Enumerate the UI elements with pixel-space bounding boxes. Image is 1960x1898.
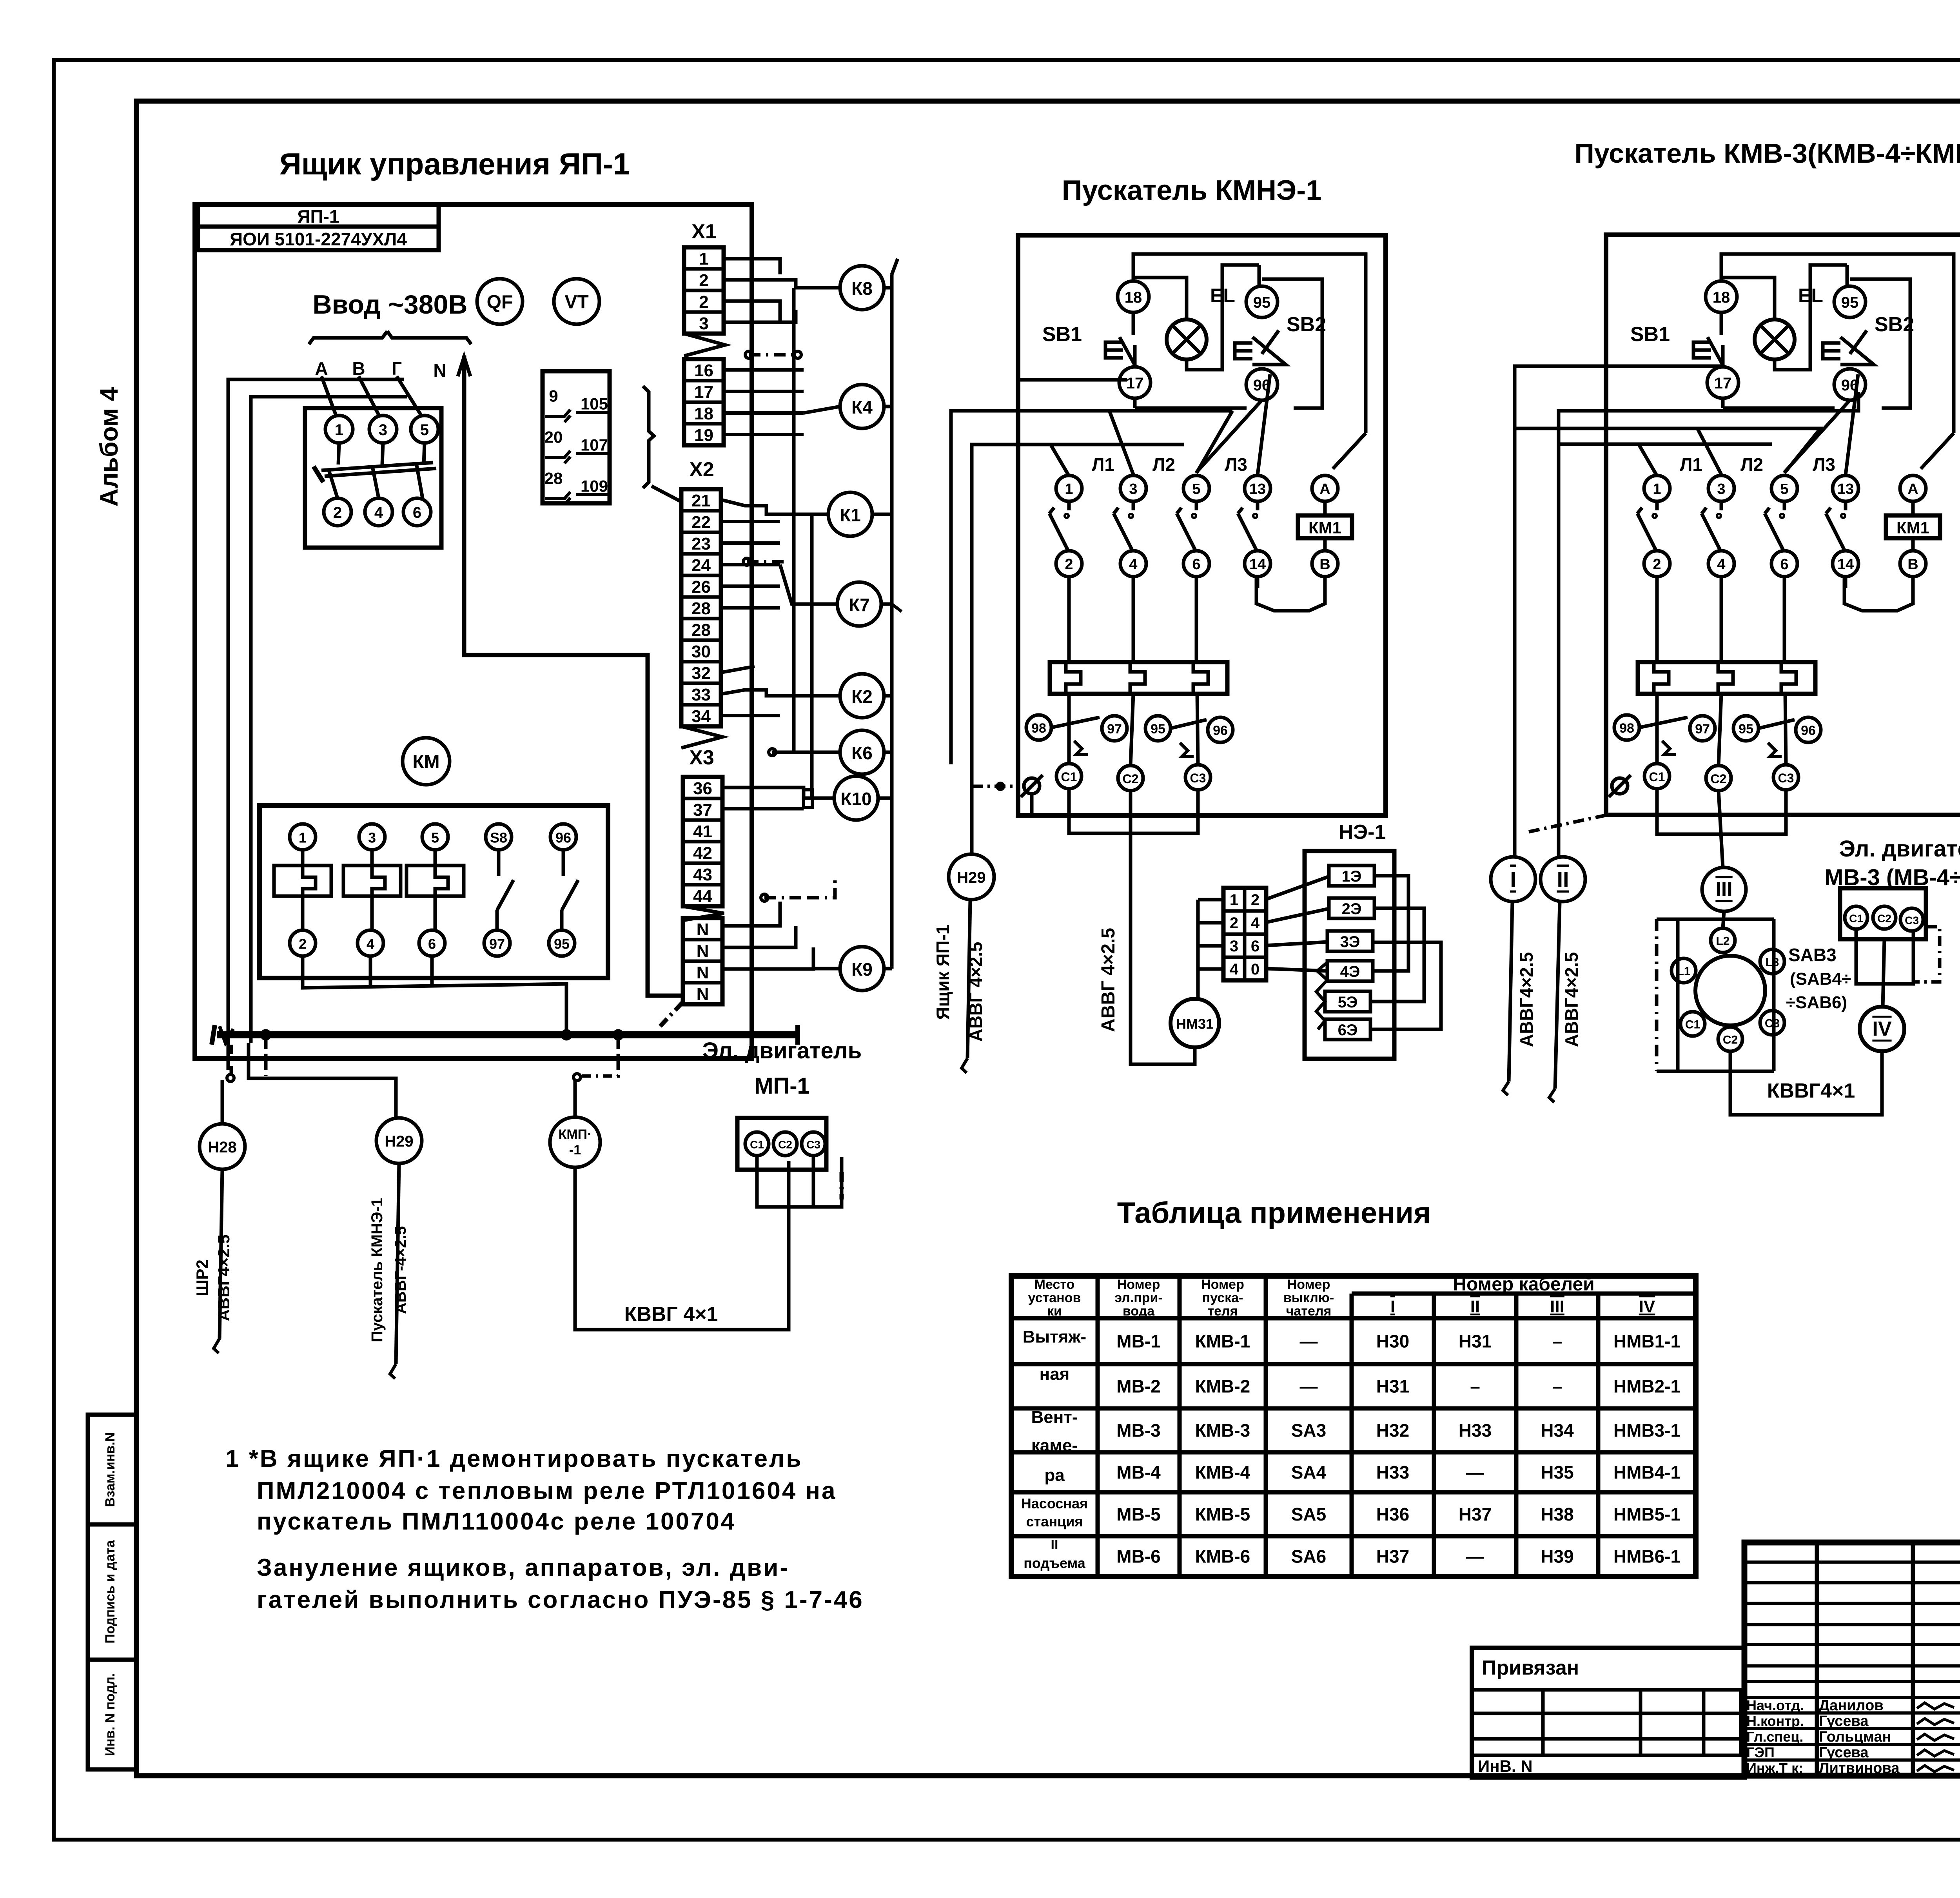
svg-text:II: II xyxy=(1051,1537,1058,1552)
svg-text:К2: К2 xyxy=(851,686,873,707)
svg-text:28: 28 xyxy=(691,621,711,640)
svg-text:44: 44 xyxy=(693,887,712,906)
KVVG 4x1 wire (section 3) xyxy=(1730,1051,1882,1115)
X1 rows 1-3 wires to loop xyxy=(724,259,780,274)
svg-text:-1: -1 xyxy=(569,1143,581,1158)
terminal 18 (КМВ-3) xyxy=(1706,281,1737,312)
svg-text:4: 4 xyxy=(374,504,383,521)
svg-text:–: – xyxy=(1470,1376,1480,1397)
svg-text:МП-1: МП-1 xyxy=(754,1073,810,1099)
svg-text:Н31: Н31 xyxy=(1459,1331,1492,1352)
svg-text:Н35: Н35 xyxy=(1541,1462,1573,1482)
svg-text:Гусева: Гусева xyxy=(1819,1713,1869,1729)
svg-text:3: 3 xyxy=(368,830,376,846)
svg-text:Инж.Т к:: Инж.Т к: xyxy=(1746,1760,1803,1776)
svg-text:–: – xyxy=(1552,1376,1563,1397)
svg-text:13: 13 xyxy=(1249,481,1266,497)
terminal box MV-3 xyxy=(1840,888,1926,939)
motor terminal C3 xyxy=(1760,1011,1784,1035)
svg-text:С3: С3 xyxy=(1765,1017,1780,1030)
svg-text:КМВ-5: КМВ-5 xyxy=(1195,1504,1250,1524)
feeder wire y1048 riser xyxy=(951,411,1181,764)
MV-3 box loop below xyxy=(1856,929,1913,984)
svg-text:4: 4 xyxy=(1717,556,1725,573)
cable circle III xyxy=(1702,867,1746,911)
svg-text:Л1: Л1 xyxy=(1092,454,1114,475)
svg-text:Зануление ящиков, аппаратов, э: Зануление ящиков, аппаратов, эл. дви- xyxy=(257,1554,789,1581)
svg-text:Н32: Н32 xyxy=(1376,1420,1409,1441)
cable circle H29 (section 2) xyxy=(949,854,994,900)
svg-text:Н28: Н28 xyxy=(208,1139,236,1156)
svg-text:С3: С3 xyxy=(1905,915,1919,927)
svg-text:2: 2 xyxy=(1230,915,1238,932)
svg-text:Н33: Н33 xyxy=(1376,1462,1409,1482)
svg-text:4: 4 xyxy=(1251,915,1260,932)
svg-text:2: 2 xyxy=(299,936,307,952)
svg-text:VT: VT xyxy=(564,292,588,313)
H29 cable tail xyxy=(396,1163,399,1364)
svg-text:КВВГ4×1: КВВГ4×1 xyxy=(1767,1080,1855,1102)
breaker terminal 5 xyxy=(411,416,438,443)
svg-text:Альбом 4: Альбом 4 xyxy=(95,387,123,506)
cable circle H29 xyxy=(376,1118,422,1163)
svg-text:14: 14 xyxy=(1249,556,1266,573)
thermal relay block (КМВ-3) xyxy=(1638,662,1815,694)
svg-text:КМВ-3: КМВ-3 xyxy=(1195,1420,1250,1441)
H28 cable tail xyxy=(220,1169,222,1339)
svg-text:АВВГ4×2.5: АВВГ4×2.5 xyxy=(1561,952,1582,1047)
svg-text:ИнВ. N: ИнВ. N xyxy=(1478,1757,1533,1775)
svg-text:22: 22 xyxy=(691,513,711,532)
svg-text:17: 17 xyxy=(1126,375,1144,392)
thermal contact 96 (КМВ-3) xyxy=(1796,717,1821,742)
svg-text:Пускатель КМНЭ-1: Пускатель КМНЭ-1 xyxy=(368,1198,386,1342)
svg-text:АВВГ-4×2.5: АВВГ-4×2.5 xyxy=(392,1226,409,1314)
svg-text:96: 96 xyxy=(1213,723,1228,738)
svg-text:6: 6 xyxy=(1192,556,1200,573)
svg-text:С1: С1 xyxy=(1649,770,1665,784)
diagonal 96 to contact 5 (КМНЭ-1) xyxy=(1196,400,1262,472)
KM aux contacts xyxy=(497,850,501,876)
svg-text:N: N xyxy=(697,985,709,1004)
svg-text:—: — xyxy=(1300,1376,1318,1397)
wire to H29 xyxy=(249,1043,396,1118)
SB1 blade (КМВ-3) xyxy=(1708,337,1724,367)
svg-text:чателя: чателя xyxy=(1286,1304,1332,1319)
svg-text:N: N xyxy=(433,360,446,381)
svg-text:÷SАВ6): ÷SАВ6) xyxy=(1786,993,1847,1012)
pole terminal 13 (КМНЭ-1) xyxy=(1245,475,1270,501)
NE-1 loop wires right xyxy=(1373,876,1408,971)
pole terminal 6 (КМНЭ-1) xyxy=(1183,551,1209,577)
svg-text:АВВГ4×2.5: АВВГ4×2.5 xyxy=(214,1234,233,1321)
svg-text:Н36: Н36 xyxy=(1376,1504,1409,1524)
svg-text:МВ-5: МВ-5 xyxy=(1116,1504,1160,1524)
svg-text:6: 6 xyxy=(1251,938,1259,955)
NE-1 block box xyxy=(1305,851,1394,1059)
svg-text:III: III xyxy=(1715,878,1732,901)
MP-1 terminals C1 C2 C3 xyxy=(745,1132,769,1156)
svg-text:34: 34 xyxy=(691,707,711,726)
thermal contact 96 (КМНЭ-1) xyxy=(1208,717,1233,742)
H29-2 cable tail xyxy=(967,900,970,1058)
cable circle H28 xyxy=(200,1124,245,1169)
svg-text:К4: К4 xyxy=(851,397,873,417)
svg-text:2: 2 xyxy=(1653,556,1661,573)
title block frame xyxy=(1744,1542,1960,1776)
terminal 95 top (КМВ-3) xyxy=(1834,286,1866,318)
svg-text:эл.при-: эл.при- xyxy=(1114,1290,1163,1305)
thermal contact 98 (КМВ-3) xyxy=(1614,715,1639,740)
svg-text:–: – xyxy=(1552,1331,1563,1352)
KM bottom link wire xyxy=(303,956,566,1035)
link 14 to B (КМНЭ-1) xyxy=(1256,577,1325,611)
K9 stub xyxy=(884,967,892,971)
svg-text:3: 3 xyxy=(1230,938,1238,955)
MV-3 dash stub right xyxy=(1915,927,1940,982)
svg-text:1: 1 xyxy=(299,830,307,846)
SB1 blade (КМНЭ-1) xyxy=(1120,337,1136,367)
svg-text:43: 43 xyxy=(693,865,712,884)
KM terminal S8 top xyxy=(486,824,512,850)
svg-text:QF: QF xyxy=(487,292,513,313)
terminal 96 (КМНЭ-1) xyxy=(1246,369,1278,400)
svg-text:3: 3 xyxy=(1717,481,1725,497)
pole terminal 5 (КМНЭ-1) xyxy=(1183,475,1209,501)
svg-text:Номер: Номер xyxy=(1201,1277,1244,1292)
KM contact block xyxy=(260,806,608,978)
KM main contacts xyxy=(274,866,331,896)
svg-text:—: — xyxy=(1466,1546,1484,1567)
thermal contact 98 (КМНЭ-1) xyxy=(1026,715,1051,740)
svg-text:SВ1: SВ1 xyxy=(1630,323,1670,346)
svg-text:17: 17 xyxy=(1714,375,1732,392)
svg-text:вода: вода xyxy=(1123,1304,1155,1319)
svg-text:3: 3 xyxy=(379,421,387,439)
brace under Vvod xyxy=(309,331,387,344)
ground symbol (КМВ-3) xyxy=(1612,778,1628,794)
svg-text:Эл. двигатель: Эл. двигатель xyxy=(1839,836,1960,862)
bracket right of connector xyxy=(643,386,654,488)
svg-text:21: 21 xyxy=(691,491,711,510)
motor stator circle (section 3) xyxy=(1695,956,1765,1025)
svg-text:Ящик управления ЯП-1: Ящик управления ЯП-1 xyxy=(279,147,630,181)
signatures squiggles xyxy=(1917,1703,1954,1709)
svg-text:Инв. N подл.: Инв. N подл. xyxy=(103,1673,118,1756)
svg-text:Гусева: Гусева xyxy=(1819,1744,1869,1761)
section 3 phase feeder diagonals xyxy=(1639,444,1657,476)
svg-text:19: 19 xyxy=(694,426,713,445)
svg-text:1: 1 xyxy=(1065,481,1073,497)
svg-text:L1: L1 xyxy=(1677,965,1690,978)
svg-text:L2: L2 xyxy=(1716,935,1730,948)
svg-text:95: 95 xyxy=(1253,294,1271,311)
thermal blades (КМВ-3) xyxy=(1639,717,1688,728)
KM terminal 6 bottom xyxy=(419,930,445,956)
svg-text:НЭ-1: НЭ-1 xyxy=(1339,821,1386,844)
svg-text:SА3: SА3 xyxy=(1291,1420,1326,1441)
section 2 control feed wire xyxy=(1018,378,1127,382)
pole terminal 2 (КМВ-3) xyxy=(1644,551,1670,577)
diagonal SB2 to contact 13 (КМНЭ-1) xyxy=(1258,374,1270,475)
svg-text:28: 28 xyxy=(544,469,563,488)
svg-text:95: 95 xyxy=(554,936,570,952)
svg-text:13: 13 xyxy=(1837,481,1854,497)
svg-text:ЯП-1: ЯП-1 xyxy=(297,206,339,227)
svg-text:станция: станция xyxy=(1026,1513,1083,1530)
svg-text:18: 18 xyxy=(1125,289,1142,306)
svg-text:1Э: 1Э xyxy=(1342,868,1362,885)
KM terminal 95 bottom xyxy=(549,930,575,956)
svg-text:4: 4 xyxy=(1129,556,1137,573)
svg-text:К10: К10 xyxy=(840,789,871,809)
svg-text:пускатель ПМЛ110004с реле 1007: пускатель ПМЛ110004с реле 100704 xyxy=(257,1508,736,1535)
X3 break mark xyxy=(683,906,724,920)
contact blades (КМВ-3) xyxy=(1655,501,1659,510)
svg-text:пуска-: пуска- xyxy=(1202,1290,1243,1305)
NE-1 terminal 4Э xyxy=(1327,961,1373,981)
contact blades (КМНЭ-1) xyxy=(1067,501,1071,510)
svg-text:НМ31: НМ31 xyxy=(1176,1016,1214,1032)
svg-text:К7: К7 xyxy=(849,595,870,615)
terminal 17 (КМВ-3) xyxy=(1707,367,1739,398)
svg-text:выклю-: выклю- xyxy=(1283,1290,1334,1305)
X3 wires xyxy=(722,788,834,798)
inner loop right (КМВ-3) xyxy=(1921,433,1954,469)
NE-1 terminal 1Э xyxy=(1329,866,1374,886)
thermal contact 97 (КМНЭ-1) xyxy=(1102,716,1127,741)
svg-text:Н37: Н37 xyxy=(1459,1504,1492,1524)
svg-text:Ввод ~380В: Ввод ~380В xyxy=(313,290,468,319)
pole terminal 13 (КМВ-3) xyxy=(1833,475,1858,501)
svg-text:6: 6 xyxy=(1780,556,1788,573)
svg-text:Л2: Л2 xyxy=(1152,454,1175,475)
breaker terminal 3 xyxy=(369,416,397,443)
thermal contact 95 (КМВ-3) xyxy=(1733,716,1759,741)
feeder wire y1134 with H29-2 drop xyxy=(972,445,1184,855)
cable circle I (section 3) xyxy=(1491,857,1535,902)
svg-text:97: 97 xyxy=(1107,722,1122,737)
svg-text:КМВ-1: КМВ-1 xyxy=(1195,1331,1250,1352)
svg-text:1: 1 xyxy=(699,249,708,269)
pole terminal А (КМВ-3) xyxy=(1900,475,1926,501)
svg-text:37: 37 xyxy=(693,800,712,820)
svg-text:МВ-2: МВ-2 xyxy=(1116,1376,1160,1397)
svg-text:4Э: 4Э xyxy=(1340,963,1360,980)
svg-text:—: — xyxy=(1466,1462,1484,1482)
svg-text:Пускатель КМВ-3(КМВ-4÷КМВ-6): Пускатель КМВ-3(КМВ-4÷КМВ-6) xyxy=(1574,138,1960,169)
svg-text:23: 23 xyxy=(691,534,711,553)
thermal contact 97 (КМВ-3) xyxy=(1690,716,1715,741)
svg-text:Вытяж-: Вытяж- xyxy=(1023,1327,1086,1346)
svg-text:АВВГ 4×2.5: АВВГ 4×2.5 xyxy=(965,942,986,1042)
svg-text:С2: С2 xyxy=(1723,1034,1738,1047)
svg-text:4: 4 xyxy=(1230,961,1239,978)
power column wires (КМНЭ-1) xyxy=(1067,577,1071,662)
svg-text:Л1: Л1 xyxy=(1680,454,1702,475)
svg-text:Данилов: Данилов xyxy=(1819,1697,1884,1714)
breaker poles xyxy=(338,443,339,465)
svg-text:Насосная: Насосная xyxy=(1021,1495,1088,1512)
cable core C3 (КМВ-3) xyxy=(1773,765,1798,790)
svg-text:К9: К9 xyxy=(851,959,873,980)
svg-text:SА5: SА5 xyxy=(1291,1504,1326,1524)
svg-text:НМВ4-1: НМВ4-1 xyxy=(1613,1462,1681,1482)
lamp EL (КМНЭ-1) xyxy=(1167,319,1207,359)
svg-text:Н39: Н39 xyxy=(1541,1546,1573,1567)
svg-text:3: 3 xyxy=(1129,481,1137,497)
wires from phases to breaker xyxy=(321,376,336,416)
svg-text:НМВ2-1: НМВ2-1 xyxy=(1613,1376,1681,1397)
svg-text:КМ1: КМ1 xyxy=(1308,519,1341,537)
svg-text:С2: С2 xyxy=(1877,913,1891,925)
svg-text:2: 2 xyxy=(699,271,708,290)
svg-text:С1: С1 xyxy=(1061,770,1077,784)
terminal strip N xyxy=(683,918,722,1004)
cable I tail (section 3) xyxy=(1509,902,1512,1081)
section 3 feeder horizontals xyxy=(1515,366,1723,857)
cable circle К4 xyxy=(840,385,884,428)
N arrow line xyxy=(464,356,683,996)
input breaker box QF xyxy=(305,408,441,548)
svg-text:ГЭП: ГЭП xyxy=(1746,1744,1775,1760)
pole terminal А (КМНЭ-1) xyxy=(1312,475,1338,501)
svg-text:N: N xyxy=(697,920,709,939)
svg-text:SА6: SА6 xyxy=(1291,1546,1326,1567)
svg-text:(SАВ4÷: (SАВ4÷ xyxy=(1790,969,1851,989)
name rows xyxy=(1744,1696,1960,1699)
K9 wire xyxy=(813,967,840,971)
svg-text:1: 1 xyxy=(335,421,343,439)
breaker terminal 1 xyxy=(325,416,353,443)
svg-text:6: 6 xyxy=(428,936,436,952)
NE-1 break zigzag xyxy=(1316,962,1327,1029)
table column lines xyxy=(1096,1276,1100,1577)
breaker terminal 6 xyxy=(403,498,431,526)
pole terminal 3 (КМВ-3) xyxy=(1708,475,1734,501)
svg-text:42: 42 xyxy=(693,844,712,863)
svg-text:98: 98 xyxy=(1619,721,1634,736)
svg-text:С1: С1 xyxy=(750,1139,764,1151)
svg-text:КМ1: КМ1 xyxy=(1896,519,1929,537)
K bus vertical right xyxy=(890,274,894,969)
motor terminal L2 xyxy=(1711,928,1735,953)
cable circle К6 xyxy=(840,730,884,774)
N bus heavy line xyxy=(217,1031,798,1038)
svg-text:Эл. двигатель: Эл. двигатель xyxy=(702,1038,862,1063)
svg-text:II: II xyxy=(1470,1297,1480,1316)
dash-dot ground link into section 2 xyxy=(972,785,1019,788)
svg-text:установ: установ xyxy=(1028,1290,1081,1305)
X1 break mark xyxy=(684,334,725,356)
svg-text:ПМЛ210004 с тепловым реле РТЛ1: ПМЛ210004 с тепловым реле РТЛ101604 на xyxy=(257,1477,837,1504)
svg-text:Н37: Н37 xyxy=(1376,1546,1409,1567)
cable circle К2 xyxy=(840,674,884,718)
svg-text:Х1: Х1 xyxy=(691,220,717,243)
svg-text:18: 18 xyxy=(694,404,713,423)
terminal strip X3 xyxy=(683,777,722,906)
svg-text:18: 18 xyxy=(1713,289,1730,306)
K7 stub xyxy=(881,602,892,606)
motor terminal L3 xyxy=(1760,949,1784,974)
svg-text:ЯОИ 5101-2274УХЛ4: ЯОИ 5101-2274УХЛ4 xyxy=(230,229,407,249)
svg-text:НМВ5-1: НМВ5-1 xyxy=(1613,1504,1681,1524)
svg-text:А: А xyxy=(315,358,328,379)
terminal strip X2 xyxy=(681,489,721,726)
motor terminal L1 xyxy=(1671,958,1696,983)
svg-text:95: 95 xyxy=(1841,294,1859,311)
svg-text:КМ: КМ xyxy=(412,752,439,773)
privyazan block xyxy=(1472,1648,1744,1777)
wire MV-3 C2 to IV xyxy=(1883,939,1884,1007)
svg-text:Н29: Н29 xyxy=(385,1133,413,1150)
svg-text:98: 98 xyxy=(1031,721,1046,736)
svg-text:Н30: Н30 xyxy=(1376,1331,1409,1352)
svg-text:АВВГ 4×2.5: АВВГ 4×2.5 xyxy=(1098,928,1119,1032)
svg-text:Гольцман: Гольцман xyxy=(1819,1729,1891,1745)
svg-text:С1: С1 xyxy=(1685,1018,1700,1031)
YP-1 label box xyxy=(198,205,439,227)
svg-text:К6: К6 xyxy=(851,743,873,763)
section 2 C1-C3 bottom link xyxy=(1069,789,1198,833)
svg-text:Номер: Номер xyxy=(1287,1277,1330,1292)
svg-text:33: 33 xyxy=(691,685,711,704)
terminal 17 (КМНЭ-1) xyxy=(1119,367,1151,398)
svg-text:II: II xyxy=(1557,867,1569,892)
NE-1 terminal 3Э xyxy=(1327,931,1373,951)
svg-text:КМВ-2: КМВ-2 xyxy=(1195,1376,1250,1397)
X1 rows 16-19 wires xyxy=(724,368,804,372)
svg-text:Номер: Номер xyxy=(1117,1277,1160,1292)
svg-text:ра: ра xyxy=(1044,1466,1065,1485)
wires grid to NE-1 xyxy=(1266,876,1329,899)
KM terminal 2 bottom xyxy=(290,930,316,956)
starter section КМНЭ-1 box xyxy=(1018,235,1386,815)
table row lines xyxy=(1011,1316,1696,1321)
terminal strip X1 rows 16-19 xyxy=(684,359,724,445)
svg-text:Номер кабелей: Номер кабелей xyxy=(1453,1274,1594,1295)
KM1 coil box (КМНЭ-1) xyxy=(1298,515,1352,538)
svg-text:6Э: 6Э xyxy=(1338,1022,1358,1039)
K2 stub xyxy=(884,694,892,698)
svg-text:В: В xyxy=(1319,556,1330,573)
svg-text:С1: С1 xyxy=(1849,913,1863,925)
svg-text:2: 2 xyxy=(333,504,342,521)
X3 44 dash-dot xyxy=(764,896,808,900)
svg-text:32: 32 xyxy=(691,664,711,683)
dash-dot drop left xyxy=(230,1045,233,1076)
MP-1 dash stub xyxy=(840,1172,844,1199)
inner loop right (КМНЭ-1) xyxy=(1333,433,1366,469)
thermal contact 95 (КМНЭ-1) xyxy=(1145,716,1171,741)
section 3 ground dash link xyxy=(1529,815,1609,832)
pole terminal 4 (КМНЭ-1) xyxy=(1120,551,1146,577)
svg-text:Х2: Х2 xyxy=(689,458,714,481)
cable circle К8 xyxy=(840,266,884,310)
YP-1 enclosure box xyxy=(195,205,752,1058)
svg-text:N: N xyxy=(697,963,709,982)
QF circle xyxy=(477,279,523,324)
svg-text:—: — xyxy=(1300,1331,1318,1352)
svg-text:SВ2: SВ2 xyxy=(1875,313,1914,336)
svg-text:К1: К1 xyxy=(840,505,861,525)
svg-text:К8: К8 xyxy=(851,278,873,299)
section 2 phase feeders xyxy=(1051,445,1069,476)
NE-1 terminal 5Э xyxy=(1325,991,1370,1012)
svg-text:Н31: Н31 xyxy=(1376,1376,1409,1397)
svg-text:L3: L3 xyxy=(1765,956,1779,969)
svg-text:SАВ3: SАВ3 xyxy=(1788,945,1837,965)
